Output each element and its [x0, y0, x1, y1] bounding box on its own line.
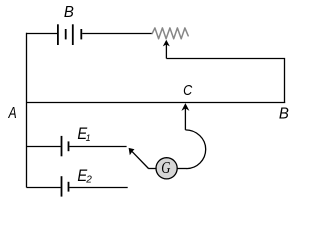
wire wiper to right edge and down	[166, 59, 284, 103]
curved wire from C arrow to galvanometer	[185, 130, 205, 169]
svg-text:B: B	[279, 105, 289, 122]
battery B plate long 1	[57, 24, 59, 45]
battery B plate short 2	[80, 29, 82, 39]
rheostat zigzag	[152, 28, 188, 39]
wire AB	[27, 102, 286, 104]
rheostat wiper shaft	[165, 44, 167, 59]
arrow C shaft	[184, 108, 186, 130]
svg-text:G: G	[161, 158, 170, 177]
battery B plate long 2	[72, 24, 74, 45]
svg-text:1: 1	[86, 133, 91, 143]
galvanometer G circle	[156, 158, 177, 179]
svg-text:A: A	[8, 105, 17, 122]
svg-text:2: 2	[85, 174, 92, 185]
battery E2 short plate	[68, 182, 70, 192]
stub G right	[178, 168, 187, 170]
svg-text:B: B	[64, 4, 74, 21]
stub G left	[148, 168, 156, 170]
battery E1 long plate	[61, 136, 63, 156]
rheostat wiper arrowhead	[163, 40, 170, 47]
left vertical wire	[26, 33, 28, 188]
battery E2 long plate	[61, 176, 63, 196]
wire battery to rheostat	[82, 33, 152, 35]
diagonal wire G to arrow	[132, 151, 149, 169]
wire E2 left segment	[27, 187, 61, 189]
wire E1 left segment	[27, 146, 61, 148]
arrow C pointing at wire AB	[181, 103, 189, 111]
battery E1 short plate	[68, 141, 70, 151]
wire E2 right segment	[69, 187, 127, 189]
arrowhead pointing at E1 wire end	[129, 148, 135, 155]
svg-text:C: C	[183, 82, 193, 99]
wire top-left horizontal	[27, 33, 58, 35]
battery B plate short 1	[65, 29, 67, 39]
wire E1 right segment	[69, 146, 126, 148]
